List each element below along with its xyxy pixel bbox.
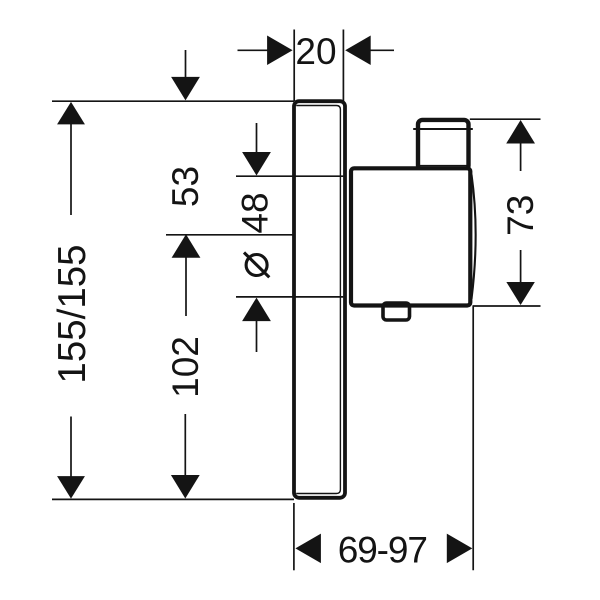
label 48 bbox=[235, 192, 276, 233]
dim 73 top arrow bbox=[506, 120, 535, 144]
dim 48 top arrow (outside, pointing down) bbox=[256, 123, 258, 153]
wall plate inner line bbox=[296, 106, 340, 494]
label 155/155 bbox=[51, 244, 94, 383]
svg-text:20: 20 bbox=[295, 31, 336, 72]
dim 155/155 top arrow bbox=[57, 102, 85, 125]
svg-text:155/155: 155/155 bbox=[51, 244, 94, 383]
dim 155/155 bottom arrow bbox=[70, 417, 72, 478]
extent line bottom (155 / 102) bbox=[52, 498, 294, 500]
svg-text:48: 48 bbox=[235, 192, 276, 233]
extent line top (155 / 53) bbox=[52, 100, 294, 102]
knob base line bbox=[420, 165, 467, 167]
svg-text:53: 53 bbox=[165, 166, 206, 207]
dim 20 left arrow bbox=[238, 49, 269, 51]
extension line 20 left bbox=[293, 30, 295, 102]
wall plate outer outline bbox=[294, 101, 345, 498]
extent line 53/102 boundary bbox=[166, 234, 294, 236]
control knob bbox=[418, 120, 469, 170]
extension line 48 top (through plate) bbox=[236, 175, 343, 177]
extension line 20 right bbox=[342, 30, 344, 102]
svg-text:102: 102 bbox=[165, 336, 206, 398]
dim 48 bottom arrow (outside, pointing up) bbox=[242, 298, 271, 322]
svg-text:73: 73 bbox=[500, 195, 541, 236]
extension line 73 bottom bbox=[473, 305, 541, 307]
dim 73 bottom arrow bbox=[520, 250, 522, 283]
svg-text:69-97: 69-97 bbox=[338, 530, 427, 571]
shared up arrow (53 bottom / 102 top) bbox=[172, 234, 201, 257]
dim 69-97 left arrow bbox=[295, 534, 321, 564]
label 102 bbox=[165, 336, 206, 398]
label 53 bbox=[165, 166, 206, 207]
dim 102 bottom arrow bbox=[184, 414, 186, 476]
valve body bbox=[351, 168, 470, 305]
bottom retainer tab bbox=[383, 303, 410, 320]
knob cap line bbox=[413, 128, 473, 130]
dim 53 top arrow (outside, pointing down) bbox=[185, 50, 187, 78]
extension line 69-97 right bbox=[472, 306, 474, 570]
extension line 69-97 left bbox=[293, 503, 295, 570]
diameter symbol bbox=[246, 255, 267, 276]
extension line 73 top bbox=[470, 118, 541, 120]
extension line 48 bottom (through plate) bbox=[236, 296, 343, 298]
label 73 bbox=[500, 195, 541, 236]
handle bulge arc bbox=[472, 175, 476, 300]
dim 20 right arrow bbox=[370, 49, 395, 51]
dim 69-97 right arrow bbox=[447, 534, 473, 564]
